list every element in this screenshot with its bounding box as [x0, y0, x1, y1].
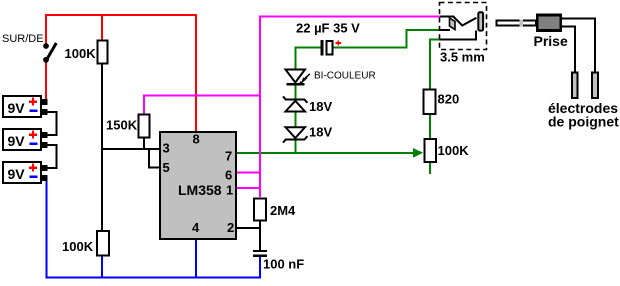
label BT1 minus	[30, 110, 38, 112]
resistor R2 100K	[97, 231, 109, 256]
wire magenta pin 6 stub	[236, 172, 261, 174]
svg-text:100K: 100K	[65, 46, 97, 61]
svg-text:9V: 9V	[8, 100, 26, 116]
label BT3 minus	[30, 176, 38, 178]
battery BT1 9V	[3, 96, 41, 117]
svg-text:100 nF: 100 nF	[263, 257, 304, 272]
wire blue battery minus down	[45, 176, 47, 279]
wire green pin 7 to potentiometer	[236, 152, 421, 154]
wire red top rail	[45, 14, 197, 16]
wire black battery1 to battery2	[46, 112, 57, 135]
wire magenta top rail to jack	[259, 16, 440, 18]
svg-text:5: 5	[163, 160, 170, 175]
svg-text:18V: 18V	[309, 99, 332, 114]
zener D2 18V (pointing up)	[283, 96, 307, 111]
LED D1 BI-COULEUR	[286, 70, 311, 86]
wire green jack to 820	[429, 39, 431, 90]
capacitor C2 100nF	[253, 250, 267, 257]
wire black pin 3	[101, 148, 160, 150]
svg-text:8: 8	[193, 132, 200, 147]
wire black 150K bottom lead	[143, 138, 145, 150]
svg-text:9V: 9V	[8, 133, 26, 149]
wire black pin 5 jog	[149, 150, 160, 168]
wire magenta pin 1 stub	[236, 187, 261, 189]
wire red switch top lead	[45, 14, 47, 44]
resistor R3 150K	[139, 115, 150, 138]
wire blue R2 100K bottom lead	[101, 255, 103, 278]
svg-text:100K: 100K	[438, 143, 470, 158]
wire red R1 100K top lead	[101, 14, 103, 40]
wire magenta vertical to 2M4	[259, 16, 261, 198]
svg-text:3.5 mm: 3.5 mm	[440, 50, 485, 65]
svg-text:1: 1	[226, 183, 233, 198]
svg-text:Prise: Prise	[534, 33, 568, 49]
svg-text:18V: 18V	[309, 125, 332, 140]
wire blue pin 4 lead	[195, 239, 197, 278]
svg-text:3: 3	[163, 141, 170, 156]
wire green to jack ring contact	[406, 29, 442, 31]
wire black divider vertical	[101, 63, 103, 231]
wire blue bottom rail	[45, 277, 261, 279]
resistor R6 2M4	[254, 199, 266, 221]
resistor R4 820	[424, 90, 436, 114]
wire black pin 2	[236, 227, 261, 229]
plug Prise	[497, 15, 561, 31]
switch SUR/DE	[43, 43, 56, 63]
zener D3 18V (pointing down)	[283, 127, 307, 142]
potentiometer R5 100K	[424, 139, 436, 162]
wire green jack sleeve horizontal	[429, 39, 441, 41]
resistor R1 100K	[98, 41, 108, 64]
op-amp U1 LM358 body	[160, 132, 236, 239]
svg-text:100K: 100K	[62, 239, 94, 254]
wire green diode chain top	[294, 47, 296, 71]
svg-text:22 µF 35 V: 22 µF 35 V	[296, 21, 360, 36]
capacitor C1 22uF 35V	[321, 40, 342, 56]
wire green 22uF left lead	[294, 47, 321, 49]
wire green up to jack ring	[406, 30, 408, 49]
wire black prise top wire	[561, 18, 595, 72]
wire green potentiometer bottom stub	[429, 162, 431, 174]
svg-text:2: 2	[227, 220, 234, 235]
wire green 820 to potentiometer	[429, 114, 431, 139]
label BT1 plus	[29, 98, 37, 106]
wire magenta to 150K top	[143, 95, 261, 97]
battery BT2 9V	[3, 129, 41, 150]
svg-text:BI-COULEUR: BI-COULEUR	[314, 71, 376, 82]
svg-text:820: 820	[438, 92, 460, 107]
wire black 2M4 bottom lead to 100nF	[259, 220, 261, 251]
svg-text:LM358: LM358	[178, 182, 222, 198]
wire magenta 150K top lead	[143, 95, 145, 115]
electrode left	[572, 73, 578, 98]
svg-text:2M4: 2M4	[270, 203, 296, 218]
wire green 22uF right lead	[333, 47, 408, 49]
wire blue 100nF bottom lead	[259, 256, 261, 279]
jack 3.5mm socket	[440, 3, 487, 50]
wire green zener1 to zener2	[294, 111, 296, 128]
svg-text:150K: 150K	[106, 118, 138, 133]
svg-text:SUR/DE: SUR/DE	[2, 33, 44, 45]
battery BT3 9V	[3, 162, 41, 183]
label BT2 plus	[29, 131, 37, 139]
label BT2 minus	[30, 143, 38, 145]
svg-text:7: 7	[225, 149, 232, 164]
wire black prise bottom wire	[561, 26, 575, 72]
svg-text:4: 4	[192, 220, 200, 235]
electrode right	[592, 73, 598, 98]
wire red pin 8 lead	[195, 14, 197, 132]
svg-text:6: 6	[225, 168, 232, 183]
wire red switch bottom lead to battery	[45, 62, 47, 103]
label BT3 plus	[29, 164, 37, 172]
svg-text:de poignet: de poignet	[548, 114, 619, 130]
svg-text:9V: 9V	[8, 166, 26, 182]
arrow green potentiometer wiper	[413, 148, 423, 158]
wire green LED to zener1	[294, 84, 296, 100]
wire black battery2 to battery3	[46, 145, 57, 168]
wire green zener2 to pin7 line	[294, 140, 296, 155]
